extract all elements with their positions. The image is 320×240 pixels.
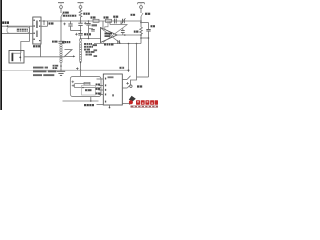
small labels column bbox=[93, 44, 98, 46]
cable label bbox=[17, 29, 28, 32]
battery B3 terminal bbox=[138, 2, 145, 4]
speaker terminal dot bbox=[19, 57, 21, 59]
wire L1 to ground bbox=[60, 63, 62, 72]
rail y38.5 bbox=[81, 38, 101, 40]
label 470u bbox=[62, 41, 70, 43]
resistor R1 bbox=[80, 8, 82, 10]
border frame left edge bbox=[0, 0, 2, 110]
IC2 pins left bbox=[97, 78, 104, 80]
enclosure box bbox=[70, 76, 101, 96]
switch K2 bbox=[140, 8, 142, 13]
resistor R7 bbox=[140, 27, 143, 34]
IC2 bottom stub bbox=[109, 105, 111, 108]
battery B1 terminal bbox=[58, 2, 64, 4]
IC2 pins right bbox=[122, 79, 127, 81]
antenna Z bbox=[65, 50, 74, 57]
capacitor C4 electrolytic bbox=[88, 21, 90, 24]
node mic junction bbox=[7, 25, 9, 27]
label BL bbox=[84, 104, 94, 106]
wire staircase to inverting input bbox=[105, 21, 108, 30]
coil L2 bbox=[79, 39, 81, 62]
wire op-amp output bbox=[117, 34, 141, 36]
resistor R2 label bbox=[49, 22, 54, 24]
wire right vertical bbox=[136, 44, 138, 78]
op-amp IC1 bbox=[33, 17, 41, 44]
wire IC1 to speaker box bbox=[21, 42, 30, 54]
shielded cable loop bbox=[7, 27, 30, 33]
wire feedback bbox=[109, 21, 111, 25]
IC1 pin marks bbox=[33, 20, 40, 42]
watermark logo bbox=[129, 96, 136, 102]
capacitor C7 small bbox=[121, 30, 125, 32]
enclosure inner marks bbox=[72, 85, 75, 87]
capacitor C6 label bbox=[113, 16, 118, 18]
label below op-amp bbox=[104, 43, 114, 45]
L1 label bbox=[53, 65, 59, 67]
watermark sub text bbox=[131, 106, 159, 108]
coil L1 bbox=[60, 44, 62, 62]
resistor R5 bbox=[93, 19, 99, 22]
ground bbox=[57, 70, 65, 72]
wire mic bottom bbox=[2, 32, 30, 34]
speaker magnet bar bbox=[12, 53, 14, 61]
switch K1 bbox=[60, 8, 62, 13]
IC2 pin numbers bbox=[105, 78, 106, 80]
wire L2 down bbox=[80, 62, 82, 77]
capacitor C8 below bbox=[117, 40, 119, 44]
wire mic top bbox=[2, 25, 30, 27]
notes text bbox=[33, 67, 56, 77]
rail lower bbox=[94, 43, 141, 45]
microphone label MIC bbox=[2, 21, 9, 24]
capacitor C2 bbox=[80, 21, 82, 23]
label C5 value bbox=[84, 33, 91, 35]
wire vertical x47 bbox=[47, 21, 49, 26]
capacitor above L1 bbox=[59, 40, 65, 42]
capacitor C1 electrolytic bbox=[70, 21, 72, 24]
capacitor C9 bbox=[146, 29, 150, 31]
capacitor C3 bbox=[89, 28, 94, 30]
node rail junctions bbox=[43, 20, 45, 22]
label under IC1 bbox=[33, 45, 41, 47]
wire into op-amp top bbox=[102, 21, 104, 28]
speaker box bbox=[9, 51, 24, 64]
battery B2 terminal bbox=[78, 2, 84, 4]
terminal 6V bbox=[130, 85, 132, 87]
long wire bottom bbox=[2, 69, 33, 71]
wire C9 branch top bbox=[141, 22, 149, 24]
wire IC1 right pin bbox=[41, 25, 48, 27]
op-amp U1 bbox=[101, 28, 118, 43]
rail mid bbox=[71, 30, 81, 32]
capacitor C5 electrolytic bbox=[80, 31, 82, 34]
IC2 bottom left wire bbox=[97, 104, 104, 106]
wire stub R2 bbox=[43, 21, 45, 25]
wire speaker to antenna bbox=[24, 56, 65, 58]
label above L1 cap bbox=[52, 41, 58, 43]
label 0.1 bbox=[120, 67, 125, 69]
wire r7 c9 join bbox=[141, 37, 149, 39]
wire vertical from rail to bottom bbox=[128, 44, 130, 73]
watermark red text bbox=[136, 100, 158, 105]
wire bottom long bbox=[63, 100, 99, 102]
L2 labels bbox=[84, 43, 92, 45]
wire bottom U join bbox=[137, 76, 149, 78]
power rail top bbox=[41, 20, 142, 22]
IC2 bbox=[103, 74, 122, 105]
resistor R6 bbox=[106, 19, 112, 22]
wire IC1 output down bbox=[40, 44, 42, 57]
wire mic vertical join bbox=[29, 26, 31, 41]
wire to terminal bbox=[131, 77, 137, 85]
